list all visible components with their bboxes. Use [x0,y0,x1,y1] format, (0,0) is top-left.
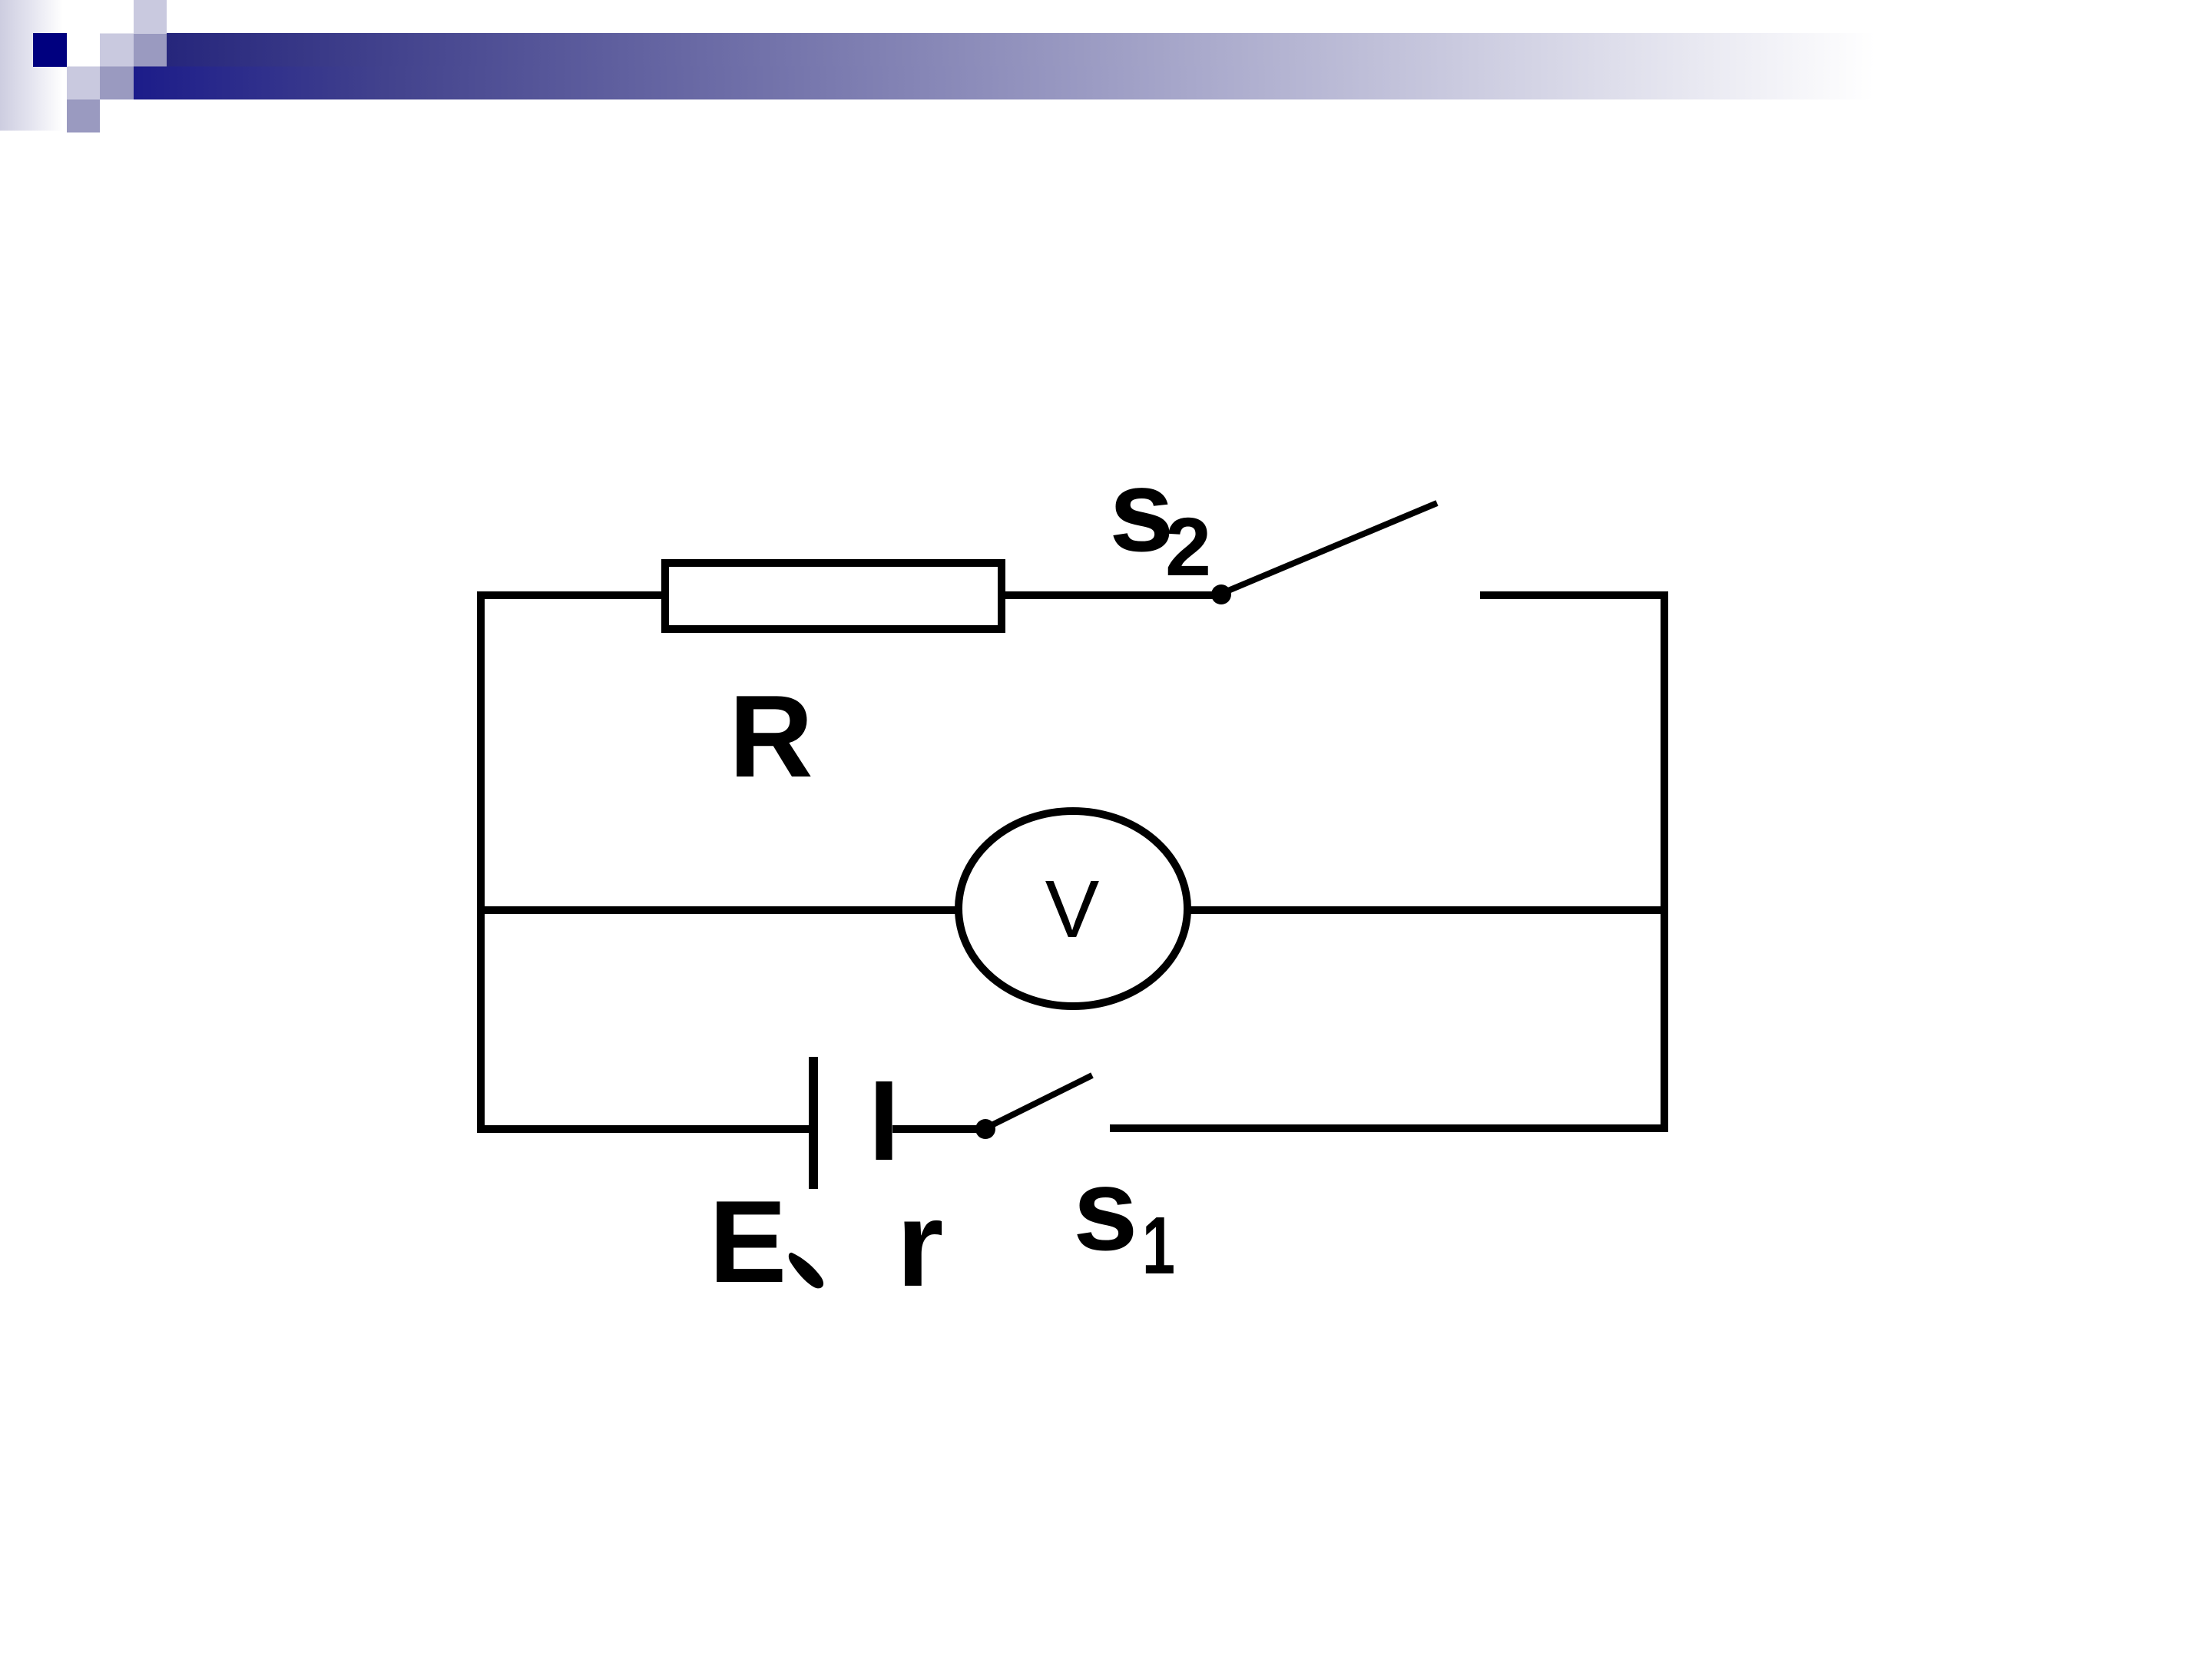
label ideographic comma [789,1253,823,1289]
svg-text:s: s [1073,1144,1138,1275]
svg-text:E: E [709,1177,786,1307]
wire: resistor to switch S2 [1002,591,1223,599]
switch S1 blade [987,1075,1092,1128]
wire: middle-right horizontal [1185,906,1668,914]
svg-text:2: 2 [1165,500,1211,593]
switch S2 blade [1223,503,1437,593]
switch S1 pivot junction [975,1119,995,1139]
svg-text:V: V [1045,864,1100,955]
wire: bottom-right horizontal [1110,1124,1668,1132]
resistor R (box) [665,563,1002,629]
wire: top-right horizontal [1480,591,1668,599]
svg-text:R: R [729,671,813,802]
wire: battery to switch S1 [892,1125,987,1133]
wire: left vertical [477,592,485,1133]
svg-text:s: s [1109,445,1174,576]
svg-text:1: 1 [1142,1200,1175,1291]
switch S2 pivot junction [1211,584,1231,604]
wire: right vertical [1661,591,1668,1131]
voltmeter V [959,811,1187,1006]
wire: middle-left horizontal [477,906,962,914]
battery negative plate (short thick) [876,1081,892,1160]
battery positive plate (long) [809,1057,818,1189]
wire: top-left horizontal [477,591,669,599]
wire: bottom-left horizontal [477,1125,809,1133]
svg-text:r: r [896,1177,944,1312]
